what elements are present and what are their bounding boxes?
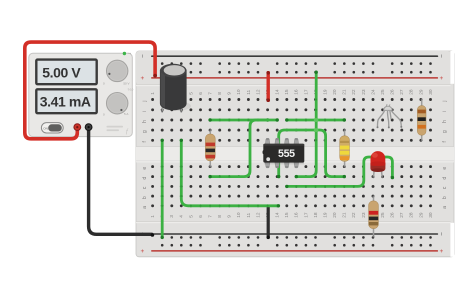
svg-text:9: 9 bbox=[227, 92, 233, 95]
svg-text:23: 23 bbox=[361, 212, 367, 218]
svg-text:+: + bbox=[139, 249, 146, 253]
wire: h7 to h13 (green, R1 top to Vcc) bbox=[208, 118, 269, 121]
svg-text:22: 22 bbox=[351, 89, 357, 95]
svg-text:g: g bbox=[442, 130, 448, 133]
svg-text:29: 29 bbox=[418, 212, 424, 218]
svg-text:−: − bbox=[139, 54, 146, 58]
wire: positive rail to j13 (red) bbox=[266, 71, 270, 102]
row letter labels bbox=[142, 101, 448, 209]
svg-text:g: g bbox=[142, 130, 148, 133]
svg-text:h: h bbox=[442, 120, 448, 123]
svg-text:6: 6 bbox=[198, 92, 204, 95]
svg-text:a: a bbox=[142, 206, 148, 209]
svg-text:d: d bbox=[442, 177, 448, 180]
svg-text:↻10: ↻10 bbox=[128, 88, 134, 92]
rail polarity labels bbox=[139, 54, 445, 253]
svg-text:+: + bbox=[438, 76, 445, 80]
svg-text:24: 24 bbox=[370, 89, 376, 95]
svg-text:22: 22 bbox=[351, 212, 357, 218]
resistor R3 (b24 to ground rail, red black) bbox=[369, 195, 379, 237]
power supply current display: 3.41 mA bbox=[36, 89, 96, 113]
svg-text:e: e bbox=[442, 167, 448, 170]
svg-text:30: 30 bbox=[428, 89, 434, 95]
LED D1 (red, legs d24 d25) bbox=[370, 151, 385, 178]
svg-text:14: 14 bbox=[275, 89, 281, 95]
svg-text:c: c bbox=[142, 186, 148, 189]
svg-text:9: 9 bbox=[227, 215, 233, 218]
power supply unit bbox=[29, 53, 133, 136]
svg-text:28: 28 bbox=[409, 212, 415, 218]
svg-text:23: 23 bbox=[361, 89, 367, 95]
svg-text:6: 6 bbox=[198, 215, 204, 218]
svg-text:15: 15 bbox=[284, 212, 290, 218]
svg-text:3: 3 bbox=[169, 215, 175, 218]
svg-text:8: 8 bbox=[217, 92, 223, 95]
breadboard hole grid bbox=[151, 62, 432, 246]
electrolytic capacitor C1 bbox=[160, 64, 191, 113]
svg-text:18: 18 bbox=[313, 212, 319, 218]
svg-text:17: 17 bbox=[303, 89, 309, 95]
555 timer IC U1 bbox=[263, 138, 305, 168]
svg-text:d: d bbox=[142, 177, 148, 180]
svg-text:10: 10 bbox=[236, 89, 242, 95]
svg-text:25: 25 bbox=[380, 89, 386, 95]
svg-text:c: c bbox=[442, 186, 448, 189]
svg-text:−: − bbox=[438, 232, 445, 236]
svg-text:28: 28 bbox=[409, 89, 415, 95]
bottom positive rail line bbox=[152, 250, 438, 252]
svg-text:20: 20 bbox=[332, 212, 338, 218]
svg-text:−: − bbox=[438, 54, 445, 58]
wire: c15 to d26 (green, output loop around LED) bbox=[285, 157, 394, 188]
wire: a13 to ground rail (black) bbox=[267, 206, 270, 239]
svg-text:555: 555 bbox=[278, 148, 295, 160]
svg-text:5.00 V: 5.00 V bbox=[42, 65, 81, 81]
power supply current knob bbox=[103, 88, 134, 117]
svg-text:1: 1 bbox=[150, 215, 156, 218]
svg-text:14: 14 bbox=[275, 212, 281, 218]
svg-text:30: 30 bbox=[428, 212, 434, 218]
top positive rail line bbox=[152, 77, 438, 79]
svg-text:50 V: 50 V bbox=[123, 81, 129, 85]
svg-text:25: 25 bbox=[380, 212, 386, 218]
svg-text:i: i bbox=[442, 111, 448, 112]
svg-text:e: e bbox=[142, 167, 148, 170]
svg-text:+: + bbox=[438, 249, 445, 253]
NPN transistor Q1 bbox=[378, 104, 402, 127]
svg-text:29: 29 bbox=[418, 89, 424, 95]
svg-text:ƒ: ƒ bbox=[125, 128, 129, 135]
svg-text:5 A: 5 A bbox=[124, 112, 128, 116]
top negative rail line bbox=[152, 55, 438, 57]
svg-text:15: 15 bbox=[284, 89, 290, 95]
svg-text:3.41 mA: 3.41 mA bbox=[40, 93, 91, 109]
svg-text:19: 19 bbox=[323, 212, 329, 218]
svg-text:h: h bbox=[142, 120, 148, 123]
power supply positive terminal bbox=[73, 123, 81, 131]
svg-text:j: j bbox=[142, 101, 148, 103]
svg-text:11: 11 bbox=[246, 212, 252, 217]
power supply ON indicator bbox=[123, 52, 131, 55]
column number labels bbox=[150, 89, 434, 218]
wire: power supply - to breadboard ground rail (black) bbox=[89, 128, 155, 237]
wire: h15 to h21 (green, threshold to R2 top) bbox=[285, 118, 346, 121]
power supply switch bbox=[41, 123, 63, 133]
svg-text:27: 27 bbox=[399, 212, 405, 218]
svg-text:5: 5 bbox=[188, 92, 194, 95]
svg-text:19: 19 bbox=[323, 89, 329, 95]
wire: h14 to d7 (green, discharge to R1 bottom) bbox=[208, 118, 278, 178]
svg-text:b: b bbox=[142, 196, 148, 199]
wire: positive rail to d16 (green, reset pull-up) bbox=[295, 71, 318, 179]
svg-text:12: 12 bbox=[255, 89, 261, 95]
svg-text:10: 10 bbox=[236, 212, 242, 218]
svg-text:7: 7 bbox=[208, 215, 214, 218]
svg-text:21: 21 bbox=[342, 89, 348, 95]
svg-text:26: 26 bbox=[390, 89, 396, 95]
power supply negative terminal bbox=[85, 123, 93, 131]
svg-text:+: + bbox=[139, 76, 146, 80]
wire crossing highlights bbox=[314, 118, 318, 132]
svg-text:1: 1 bbox=[150, 92, 156, 95]
resistor R1 (g7-e7, red black red) bbox=[205, 129, 215, 168]
svg-text:21: 21 bbox=[342, 212, 348, 218]
svg-text:7: 7 bbox=[208, 92, 214, 95]
svg-text:17: 17 bbox=[303, 212, 309, 218]
svg-text:4: 4 bbox=[179, 215, 185, 218]
power supply voltage knob bbox=[103, 60, 130, 85]
breadboard body bbox=[136, 51, 454, 257]
wire: f4 to a14 (green, capacitor + to trigger) bbox=[180, 139, 280, 208]
svg-text:26: 26 bbox=[390, 212, 396, 218]
svg-text:12: 12 bbox=[255, 212, 261, 218]
power supply voltage display: 5.00 V bbox=[36, 60, 96, 85]
svg-text:16: 16 bbox=[294, 89, 300, 95]
svg-text:20: 20 bbox=[332, 89, 338, 95]
resistor R2 (g21-e21, yellow yellow orange) bbox=[340, 129, 350, 168]
wire: power supply + to breadboard positive rail (red) bbox=[25, 42, 157, 139]
svg-text:ON: ON bbox=[43, 127, 48, 131]
bottom negative rail line bbox=[152, 233, 438, 235]
svg-text:5: 5 bbox=[188, 215, 194, 218]
power supply fine print bbox=[107, 126, 130, 135]
svg-text:i: i bbox=[142, 111, 148, 112]
center channel bbox=[136, 147, 454, 162]
wire: ground rail to f2 (green) bbox=[161, 139, 164, 239]
svg-text:11: 11 bbox=[246, 89, 252, 94]
wire: d14 to d21 (green, trigger loop over IC) bbox=[277, 130, 346, 178]
svg-text:j: j bbox=[442, 101, 448, 103]
svg-text:b: b bbox=[442, 196, 448, 199]
svg-text:27: 27 bbox=[399, 89, 405, 95]
svg-text:16: 16 bbox=[294, 212, 300, 218]
resistor R4 (j29-f29, orange black orange) bbox=[417, 99, 426, 142]
svg-text:a: a bbox=[442, 206, 448, 209]
svg-text:8: 8 bbox=[217, 215, 223, 218]
